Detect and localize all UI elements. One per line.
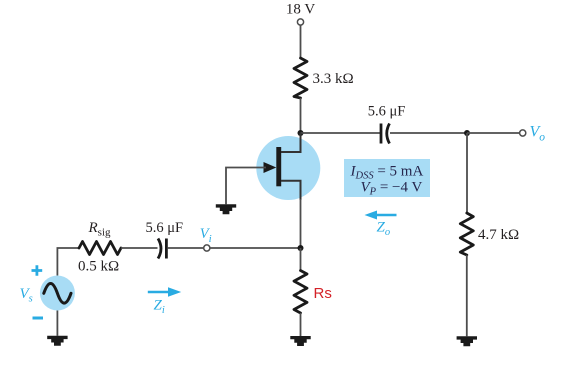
Q1 channel bar — [276, 147, 281, 186]
wire Rsig to C1 — [121, 247, 158, 249]
capacitor C1 5.6 uF — [158, 239, 166, 259]
resistor RL 4.7 kOhm — [460, 213, 473, 255]
wire Vs to ground — [56, 311, 58, 336]
wire source lead to input node — [300, 199, 302, 248]
svg-text:4.7 kΩ: 4.7 kΩ — [478, 227, 519, 243]
node drain junction — [298, 130, 304, 136]
ground (Vs) — [47, 336, 67, 346]
svg-text:Zo: Zo — [377, 220, 391, 239]
label plus — [32, 265, 43, 276]
wire RD to drain node — [300, 98, 302, 133]
svg-text:Zi: Zi — [154, 297, 165, 316]
resistor Rsig 0.5 kOhm — [79, 242, 121, 255]
node Vi terminal — [204, 245, 210, 251]
wire RL to ground — [466, 255, 468, 336]
wire C2 to output node — [390, 132, 467, 134]
annotation box IDSS / VP — [344, 159, 430, 197]
svg-text:5.6 μF: 5.6 μF — [368, 104, 406, 120]
svg-text:3.3 kΩ: 3.3 kΩ — [313, 71, 354, 87]
svg-text:0.5 kΩ: 0.5 kΩ — [78, 259, 119, 275]
wire supply to RD — [300, 25, 302, 58]
node output junction — [464, 130, 470, 136]
svg-text:Vi: Vi — [200, 226, 212, 245]
Vs sine symbol — [44, 283, 71, 303]
arrow Zi — [148, 287, 181, 296]
resistor Rs — [294, 271, 307, 314]
Q1 drain lead — [281, 133, 301, 152]
node source junction — [298, 245, 304, 251]
ground (Rs) — [290, 336, 310, 346]
wire gate to ground — [226, 168, 266, 205]
supply terminal 18 V — [286, 1, 315, 25]
source Vs body — [40, 276, 75, 311]
capacitor C2 5.6 uF — [381, 124, 390, 144]
svg-text:18 V: 18 V — [286, 1, 315, 17]
wire Vi to source node — [210, 247, 301, 249]
Q1 gate arrow — [264, 162, 277, 173]
svg-text:Vo: Vo — [530, 124, 546, 144]
wire source node to Rs — [300, 248, 302, 271]
ground (RL) — [457, 336, 477, 346]
wire Rs to ground — [300, 313, 302, 336]
wire C1 to Vi terminal — [168, 247, 204, 249]
ground (gate) — [216, 204, 236, 214]
wire output node to Vo terminal — [467, 132, 520, 134]
wire drain node to C2 — [301, 132, 381, 134]
resistor RD 3.3 kOhm — [294, 58, 307, 98]
transistor Q1 JFET body — [256, 136, 320, 200]
svg-text:Vs: Vs — [20, 286, 33, 305]
svg-text:Rs: Rs — [314, 285, 332, 302]
svg-text:5.6 μF: 5.6 μF — [146, 220, 184, 236]
svg-text:Rsig: Rsig — [88, 220, 112, 239]
wire output node to RL — [466, 133, 468, 213]
output terminal Vo — [520, 130, 526, 136]
arrow Zo — [365, 211, 397, 220]
wire Vs to input line — [57, 248, 79, 276]
Q1 source lead — [281, 181, 301, 200]
label minus — [33, 317, 44, 320]
